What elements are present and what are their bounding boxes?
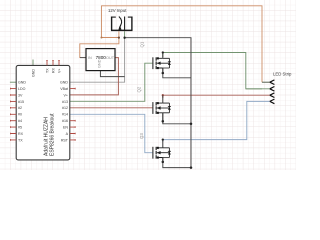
svg-text:IN: IN [88,56,92,60]
svg-text:VBat: VBat [60,87,68,91]
svg-text:12V Input: 12V Input [108,8,127,13]
svg-text:#5: #5 [18,126,22,130]
svg-text:Q3: Q3 [139,133,144,139]
svg-text:GND: GND [18,81,26,85]
svg-text:#12: #12 [62,106,68,110]
svg-text:OUT: OUT [106,56,115,60]
svg-text:#15: #15 [18,100,24,104]
svg-text:#4: #4 [18,119,22,123]
svg-text:#16: #16 [62,119,68,123]
svg-text:LDO: LDO [18,87,26,91]
svg-text:#14: #14 [62,113,68,117]
svg-text:RX: RX [52,67,56,73]
svg-text:7800: 7800 [96,55,107,60]
svg-text:Q2: Q2 [137,86,142,92]
svg-text:3V: 3V [18,93,23,97]
svg-text:#0: #0 [18,113,22,117]
svg-text:#13: #13 [62,100,68,104]
svg-text:V+: V+ [64,93,69,97]
svg-text:GND: GND [60,81,68,85]
svg-text:EN: EN [63,126,68,130]
svg-text:GND: GND [32,69,36,77]
svg-text:TX: TX [18,138,23,142]
svg-text:V+: V+ [58,69,62,74]
svg-text:TX: TX [46,68,50,73]
svg-text:LED Strip: LED Strip [273,71,292,76]
svg-text:Q1: Q1 [140,41,145,47]
svg-text:GND: GND [97,59,101,68]
svg-text:RST: RST [61,138,69,142]
svg-text:#2: #2 [18,106,22,110]
svg-text:RX: RX [18,132,24,136]
svg-text:ESP8266 Breakout: ESP8266 Breakout [50,113,56,156]
